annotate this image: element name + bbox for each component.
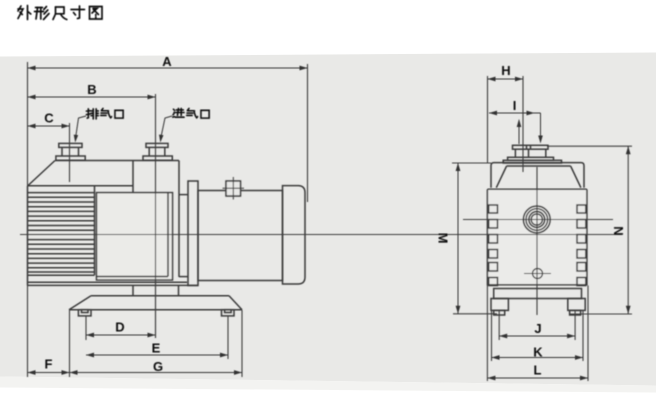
svg-text:L: L — [534, 363, 542, 378]
ext J right — [574, 310, 576, 340]
dim line K — [492, 357, 584, 359]
exhaust port flange — [59, 143, 82, 147]
intake port flange — [146, 143, 168, 147]
dim line G — [70, 372, 243, 374]
intake port neck — [148, 147, 150, 156]
title 外形尺寸图 — [18, 6, 102, 20]
drain plug — [533, 269, 543, 279]
dim line F — [28, 372, 70, 374]
ext H left — [487, 76, 489, 163]
tick N top — [547, 145, 632, 147]
centerline across body — [487, 234, 587, 236]
motor body — [198, 191, 283, 281]
sight glass — [523, 206, 550, 233]
extension line base-right (x=242) — [241, 310, 243, 377]
port collar — [508, 157, 554, 160]
motor end cap — [283, 186, 306, 284]
svg-text:I: I — [513, 98, 517, 113]
centerline horizontal — [20, 234, 622, 236]
pedestal column — [132, 285, 134, 295]
ext L left — [486, 286, 488, 382]
intake port collar — [143, 156, 172, 160]
foot pad left — [494, 310, 505, 315]
body sides — [486, 189, 488, 285]
dim line A — [28, 67, 308, 69]
small leader arrows at port — [518, 120, 520, 144]
leader 进气口 — [161, 116, 172, 137]
sight glass line across body — [487, 219, 587, 221]
right view pump body — [487, 145, 587, 315]
extension line left (x=27.5) — [27, 62, 29, 377]
body bottom — [28, 281, 188, 283]
neck to flange — [179, 194, 188, 196]
tick M bottom — [453, 313, 497, 315]
exhaust port neck — [61, 147, 63, 156]
exhaust port collar — [56, 156, 85, 160]
svg-text:H: H — [501, 63, 510, 78]
dim line M — [457, 163, 459, 314]
svg-text:F: F — [45, 357, 53, 372]
body top edge — [55, 160, 179, 162]
ext H right / port line — [522, 76, 524, 172]
ext K left — [491, 311, 493, 362]
port flange — [513, 145, 549, 149]
lid outer box — [491, 163, 584, 188]
extension line foot-right (x=228) — [227, 316, 229, 359]
svg-text:E: E — [152, 341, 161, 356]
dim labels left view — [44, 54, 172, 374]
top-left slant — [28, 161, 56, 187]
dim line C — [28, 125, 70, 127]
dim line J — [499, 335, 575, 337]
svg-text:N: N — [611, 226, 626, 235]
intake tower — [132, 161, 134, 194]
svg-text:M: M — [436, 233, 451, 244]
foot left — [78, 310, 91, 316]
dim line I — [489, 112, 535, 114]
redraw intake centerline over plate — [155, 193, 157, 338]
dim line E — [86, 354, 228, 356]
ext L right — [587, 286, 589, 382]
dim line H — [488, 78, 524, 80]
svg-text:G: G — [153, 359, 163, 374]
extension line intake center (x=155.5) — [155, 94, 157, 338]
ext J left — [498, 310, 500, 340]
left tabs — [489, 205, 498, 213]
foot bar — [494, 289, 582, 299]
extension line motor right (x=307.5) — [307, 64, 309, 202]
label 排气口 — [86, 108, 123, 119]
svg-text:A: A — [162, 54, 172, 69]
label 进气口 — [173, 108, 209, 118]
fins block — [28, 185, 134, 187]
svg-text:D: D — [115, 320, 124, 335]
lid inner trapezoid — [507, 165, 571, 167]
motor flange — [188, 181, 198, 286]
front plate — [97, 193, 173, 280]
leader 排气口 — [76, 116, 86, 137]
dim labels right view — [436, 63, 627, 378]
dim line N — [627, 146, 629, 314]
foot pad right — [570, 310, 581, 315]
tick M top — [452, 162, 491, 164]
body top edge — [487, 188, 587, 190]
dim line L — [487, 377, 588, 379]
svg-text:J: J — [534, 321, 541, 336]
port neck — [514, 149, 516, 157]
svg-text:K: K — [533, 345, 543, 360]
dim line D — [86, 334, 156, 336]
dim line B — [28, 96, 156, 98]
left edge — [27, 186, 29, 285]
svg-text:B: B — [87, 82, 96, 97]
svg-text:C: C — [44, 111, 54, 126]
extension line exhaust center upper (x=69.5) — [69, 123, 71, 182]
foot block right — [568, 299, 585, 311]
tick N bottom — [569, 313, 632, 315]
body vertical centerline — [536, 167, 538, 315]
foot block left — [491, 299, 508, 311]
base plate — [91, 295, 229, 297]
foot right — [222, 310, 235, 316]
extension line foot-left (x=86) — [85, 316, 87, 340]
ext K right — [582, 311, 584, 362]
sight glass horizontal line — [463, 219, 613, 221]
extension line base-left lower (x=69.5) — [69, 310, 71, 377]
pump body left view — [28, 143, 306, 316]
right tabs — [577, 205, 586, 213]
body face fill — [487, 189, 587, 284]
junction box — [226, 181, 241, 196]
vertical centerline of body — [536, 189, 538, 284]
